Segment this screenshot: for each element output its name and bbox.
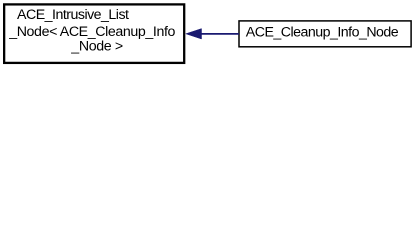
- node ACE_Intrusive_List_Node< ACE_Cleanup_Info_Node > (current class, bold box): [4, 4, 184, 63]
- arrowhead: [186, 29, 202, 39]
- svg-text:_Node >: _Node >: [70, 39, 123, 55]
- svg-text:ACE_Cleanup_Info_Node: ACE_Cleanup_Info_Node: [246, 24, 399, 40]
- svg-text:ACE_Intrusive_List: ACE_Intrusive_List: [17, 7, 129, 23]
- node ACE_Cleanup_Info_Node (box): [239, 21, 411, 47]
- wire: arrow tail line: [200, 33, 239, 35]
